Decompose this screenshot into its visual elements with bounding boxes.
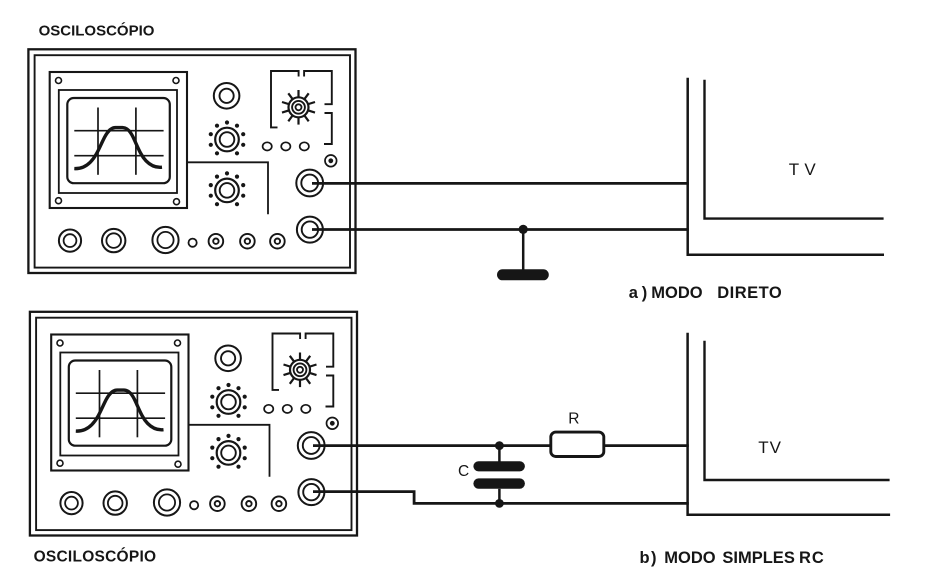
wire: bottom scope CH output through R to TV [313, 444, 689, 447]
svg-text:TV: TV [789, 160, 821, 179]
node: junction dot top of C [495, 441, 504, 450]
ground symbol stem [522, 229, 525, 270]
svg-text:DIRETO: DIRETO [717, 284, 782, 302]
svg-text:C: C [458, 463, 469, 480]
svg-text:MODO: MODO [651, 284, 702, 302]
svg-text:a: a [629, 284, 639, 302]
svg-text:TV: TV [758, 438, 782, 457]
capacitor C bottom plate [473, 478, 525, 488]
svg-text:SIMPLES: SIMPLES [722, 549, 794, 567]
svg-text:MODO: MODO [664, 549, 715, 567]
node: junction dot bottom of C [495, 499, 504, 508]
svg-text:R: R [568, 410, 579, 427]
wire: top scope GND output to TV (return) [312, 228, 689, 231]
capacitor C top plate [473, 461, 525, 471]
TV chassis outline outer (top diagram) [688, 78, 884, 255]
oscilloscope U1 (top, modo direto) [28, 49, 355, 273]
wire: bottom scope GND output with jog to TV [313, 492, 689, 504]
resistor R body [551, 432, 604, 456]
svg-text:b: b [640, 549, 650, 567]
svg-text:): ) [642, 284, 648, 302]
node: ground junction dot [519, 225, 528, 234]
capacitor C bottom lead [498, 489, 501, 504]
TV chassis outline inner (bottom diagram) [705, 341, 890, 480]
svg-text:RC: RC [799, 549, 825, 567]
wire: top scope CH output to TV (signal) [312, 182, 689, 185]
svg-text:): ) [651, 549, 657, 567]
capacitor C top lead [498, 446, 501, 462]
TV chassis outline outer (bottom diagram) [688, 333, 891, 515]
oscilloscope U2 (bottom, modo simples RC) [30, 312, 357, 536]
ground symbol bar [497, 269, 549, 280]
TV chassis outline inner (top diagram) [705, 80, 884, 219]
svg-text:OSCILOSCÓPIO: OSCILOSCÓPIO [39, 22, 155, 40]
caption b) MODO SIMPLES RC [640, 549, 825, 567]
caption a) MODO DIRETO [629, 284, 782, 302]
svg-text:OSCILOSCÓPIO: OSCILOSCÓPIO [34, 548, 157, 566]
